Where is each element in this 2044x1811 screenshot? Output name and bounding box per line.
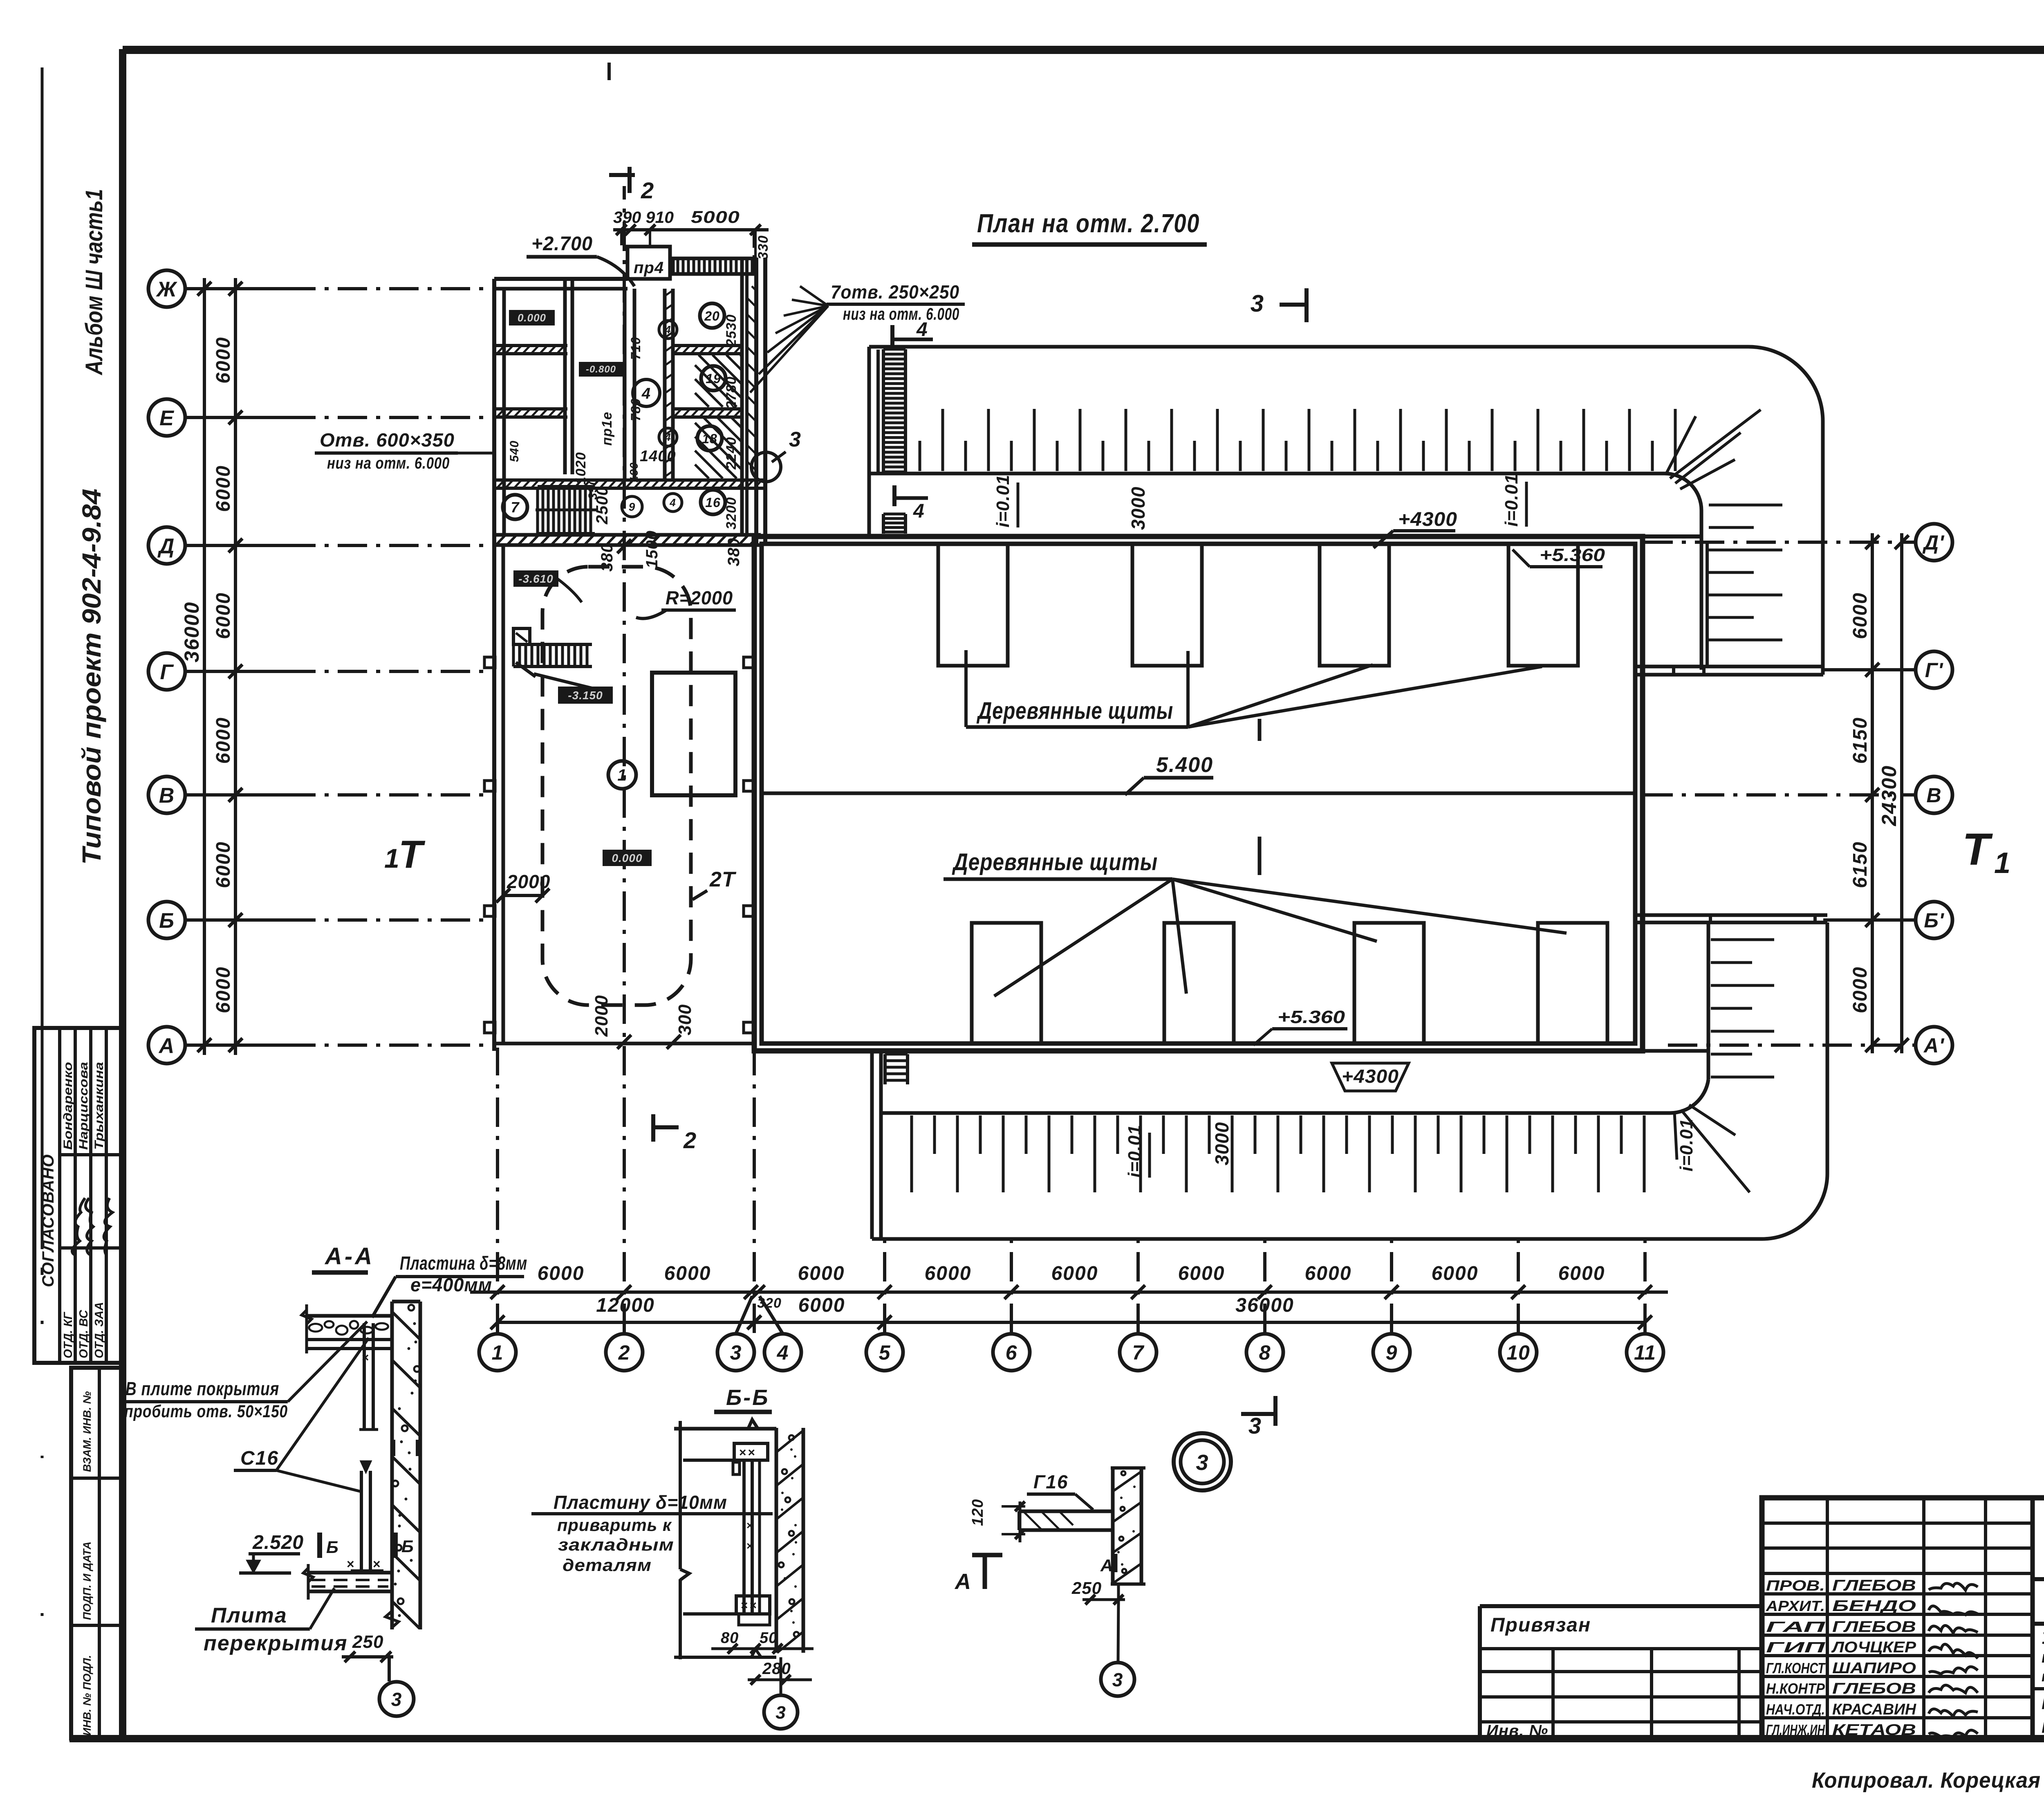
- svg-text:3: 3: [789, 428, 801, 451]
- svg-text:+5.360: +5.360: [1277, 1007, 1345, 1027]
- svg-text:ОТД. КГ: ОТД. КГ: [62, 1312, 75, 1358]
- svg-text:4: 4: [664, 323, 671, 336]
- svg-text:780: 780: [628, 398, 643, 421]
- svg-text:Ж: Ж: [155, 278, 177, 301]
- svg-text:Б-Б: Б-Б: [726, 1385, 769, 1410]
- svg-text:300: 300: [675, 1004, 695, 1035]
- svg-text:6000: 6000: [213, 841, 234, 888]
- svg-text:закладным: закладным: [558, 1535, 674, 1554]
- svg-text:А: А: [158, 1034, 175, 1058]
- svg-text:План на отм. 2.700: План на отм. 2.700: [2042, 1693, 2044, 1713]
- svg-text:План на отм. 2.700: План на отм. 2.700: [977, 209, 1200, 238]
- svg-text:Деревянные щиты: Деревянные щиты: [976, 698, 1173, 724]
- svg-text:ГЛ.КОНСТ: ГЛ.КОНСТ: [1766, 1660, 1826, 1676]
- svg-text:6000: 6000: [664, 1263, 711, 1284]
- svg-text:СОГЛАСОВАНО: СОГЛАСОВАНО: [39, 1154, 57, 1287]
- svg-text:Плита: Плита: [211, 1604, 287, 1627]
- svg-text:×: ×: [347, 1557, 355, 1571]
- svg-text:540: 540: [508, 440, 521, 462]
- svg-text:6150: 6150: [1849, 717, 1871, 764]
- svg-text:Б: Б: [159, 909, 175, 933]
- svg-text:Нарциссова: Нарциссова: [77, 1062, 90, 1150]
- svg-text:4: 4: [669, 496, 676, 509]
- svg-text:i=0.01: i=0.01: [1502, 474, 1522, 527]
- svg-text:6000: 6000: [1305, 1263, 1352, 1284]
- svg-text:ШАПИРО: ШАПИРО: [1832, 1660, 1916, 1677]
- svg-text:7отв. 250×250: 7отв. 250×250: [831, 281, 959, 303]
- svg-text:ГИП: ГИП: [1766, 1639, 1826, 1656]
- svg-text:7: 7: [511, 499, 520, 516]
- svg-text:А': А': [1923, 1034, 1945, 1057]
- svg-text:низ на отм. 6.000: низ на отм. 6.000: [327, 454, 450, 472]
- svg-text:Д: Д: [157, 534, 175, 558]
- svg-text:1400: 1400: [640, 448, 676, 465]
- svg-text:×: ×: [746, 1539, 753, 1552]
- svg-text:на каркасно-засыпных фильтрах: на каркасно-засыпных фильтрах: [2042, 1648, 2044, 1666]
- svg-text:3000: 3000: [1127, 487, 1149, 530]
- svg-text:250: 250: [1071, 1578, 1102, 1598]
- svg-text:3: 3: [391, 1689, 402, 1710]
- svg-text:Типовой проект 902-4-9.84: Типовой проект 902-4-9.84: [77, 489, 106, 865]
- svg-text:Н.КОНТР: Н.КОНТР: [1766, 1680, 1825, 1697]
- svg-text:План на отм. -4.680 и -3.150: План на отм. -4.680 и -3.150: [2042, 1717, 2044, 1737]
- svg-text:0.000: 0.000: [518, 312, 546, 324]
- svg-text:Г': Г': [1925, 659, 1944, 682]
- svg-text:36000: 36000: [180, 601, 203, 662]
- svg-text:6000: 6000: [213, 717, 234, 764]
- svg-text:ГЛЕБОВ: ГЛЕБОВ: [1832, 1577, 1916, 1594]
- svg-text:перекрытия: перекрытия: [204, 1631, 348, 1655]
- svg-text:280: 280: [762, 1660, 791, 1678]
- svg-text:2530: 2530: [724, 314, 739, 347]
- svg-text:i=0.01: i=0.01: [1125, 1124, 1145, 1178]
- svg-text:КЕТАОВ: КЕТАОВ: [1832, 1721, 1916, 1739]
- svg-text:××: ××: [739, 1446, 757, 1459]
- svg-text:20: 20: [704, 309, 720, 323]
- svg-text:2: 2: [618, 1341, 630, 1364]
- svg-text:16: 16: [705, 495, 721, 510]
- svg-text:i=0.01: i=0.01: [993, 474, 1013, 527]
- svg-text:7: 7: [1132, 1341, 1145, 1364]
- svg-text:6000: 6000: [1558, 1263, 1605, 1284]
- svg-text:6: 6: [1006, 1341, 1018, 1364]
- svg-text:Д': Д': [1922, 531, 1945, 554]
- svg-text:Е: Е: [159, 406, 174, 430]
- svg-text:Трыханкина: Трыханкина: [92, 1062, 106, 1150]
- svg-text:120: 120: [969, 1499, 986, 1526]
- svg-text:350: 350: [586, 478, 600, 500]
- svg-text:6000: 6000: [1051, 1263, 1098, 1284]
- svg-text:××: ××: [741, 1599, 758, 1612]
- svg-text:i=0.01: i=0.01: [1676, 1118, 1697, 1171]
- svg-text:В: В: [1926, 784, 1941, 807]
- svg-text:5: 5: [879, 1341, 891, 1364]
- svg-text:11: 11: [1634, 1341, 1656, 1364]
- svg-text:6000: 6000: [925, 1263, 972, 1284]
- svg-text:6000: 6000: [798, 1295, 845, 1316]
- svg-text:А: А: [954, 1569, 971, 1594]
- svg-text:1: 1: [384, 843, 400, 873]
- svg-text:ГЛЕБОВ: ГЛЕБОВ: [1832, 1680, 1916, 1697]
- svg-text:Установка доочистки сточных во: Установка доочистки сточных вод: [2042, 1629, 2044, 1647]
- svg-text:6000: 6000: [1849, 592, 1871, 639]
- svg-text:6000: 6000: [1432, 1263, 1479, 1284]
- svg-text:НАЧ.ОТД.: НАЧ.ОТД.: [1766, 1701, 1825, 1718]
- svg-text:Отв. 600×350: Отв. 600×350: [320, 429, 455, 451]
- svg-text:+5.360: +5.360: [1540, 545, 1605, 565]
- svg-text:3: 3: [1248, 1413, 1262, 1438]
- svg-text:250: 250: [352, 1632, 383, 1652]
- svg-text:низ на отм. 6.000: низ на отм. 6.000: [843, 304, 959, 323]
- svg-text:×: ×: [373, 1557, 381, 1571]
- svg-text:6000: 6000: [213, 966, 234, 1013]
- svg-text:9: 9: [1386, 1341, 1398, 1364]
- svg-text:6000: 6000: [1178, 1263, 1225, 1284]
- svg-text:пробить отв. 50×150: пробить отв. 50×150: [124, 1402, 288, 1421]
- svg-text:ГЛ.ИНЖ.ИН: ГЛ.ИНЖ.ИН: [1766, 1721, 1825, 1738]
- svg-text:Пластина δ=8мм: Пластина δ=8мм: [400, 1252, 527, 1274]
- svg-text:×: ×: [362, 1351, 370, 1364]
- svg-text:-0.800: -0.800: [586, 364, 616, 375]
- svg-text:3: 3: [775, 1703, 786, 1723]
- svg-text:В плите покрытия: В плите покрытия: [126, 1378, 279, 1399]
- svg-text:4: 4: [913, 500, 925, 522]
- svg-text:ОТД. ВС: ОТД. ВС: [77, 1309, 90, 1358]
- svg-text:380: 380: [598, 543, 616, 572]
- svg-text:Пластину δ=10мм: Пластину δ=10мм: [554, 1492, 727, 1513]
- svg-text:5000: 5000: [691, 207, 740, 227]
- svg-text:5.400: 5.400: [1156, 753, 1213, 777]
- svg-text:6150: 6150: [1849, 841, 1871, 888]
- svg-text:С16: С16: [240, 1447, 279, 1469]
- svg-text:1: 1: [617, 766, 627, 784]
- svg-text:Г: Г: [160, 660, 174, 684]
- svg-text:2: 2: [683, 1127, 697, 1153]
- svg-text:ОТД. ЗАА: ОТД. ЗАА: [93, 1302, 106, 1358]
- svg-text:ЛОЧЦКЕР: ЛОЧЦКЕР: [1831, 1639, 1916, 1656]
- svg-text:приварить к: приварить к: [557, 1515, 672, 1535]
- svg-text:R=2000: R=2000: [666, 587, 733, 608]
- svg-text:ПОДП. И ДАТА: ПОДП. И ДАТА: [81, 1542, 93, 1620]
- svg-text:9: 9: [629, 500, 636, 513]
- svg-text:В: В: [159, 784, 175, 808]
- svg-text:1: 1: [1994, 847, 2011, 880]
- svg-text:19: 19: [706, 371, 721, 386]
- svg-text:330: 330: [755, 235, 771, 260]
- svg-text:4: 4: [664, 431, 671, 443]
- svg-text:Инв. №: Инв. №: [1486, 1722, 1548, 1740]
- svg-text:2000: 2000: [592, 995, 612, 1037]
- svg-text:3: 3: [730, 1341, 742, 1364]
- svg-text:Бондаренко: Бондаренко: [61, 1062, 75, 1150]
- svg-text:Копировал. Корецкая: Копировал. Корецкая: [1812, 1768, 2041, 1793]
- svg-text:Привязан: Привязан: [1490, 1614, 1591, 1636]
- svg-text:3: 3: [1112, 1669, 1123, 1690]
- svg-text:390 910: 390 910: [613, 209, 674, 227]
- svg-text:ВЗАМ. ИНВ. №: ВЗАМ. ИНВ. №: [81, 1391, 93, 1472]
- svg-text:2Т: 2Т: [709, 868, 737, 891]
- svg-text:производительностью 70тыс.м³/с: производительностью 70тыс.м³/сутки: [2042, 1668, 2044, 1685]
- svg-text:3: 3: [1251, 290, 1264, 317]
- svg-text:пр1е: пр1е: [599, 412, 615, 446]
- svg-text:8: 8: [1259, 1341, 1271, 1364]
- svg-text:ПРОВ.: ПРОВ.: [1766, 1577, 1825, 1594]
- svg-text:6000: 6000: [213, 465, 234, 512]
- svg-text:3: 3: [1196, 1450, 1208, 1475]
- svg-text:-3.150: -3.150: [568, 689, 603, 702]
- svg-text:×: ×: [746, 1519, 753, 1532]
- svg-text:2: 2: [641, 177, 654, 203]
- svg-text:4: 4: [777, 1341, 789, 1364]
- svg-text:6000: 6000: [798, 1263, 845, 1284]
- svg-text:10: 10: [1506, 1341, 1530, 1364]
- svg-text:18: 18: [702, 431, 717, 446]
- svg-text:6000: 6000: [1849, 966, 1871, 1013]
- svg-text:БЕНДО: БЕНДО: [1832, 1598, 1916, 1615]
- svg-text:Б': Б': [1924, 909, 1944, 932]
- svg-text:+4300: +4300: [1398, 509, 1457, 530]
- svg-text:320: 320: [757, 1295, 782, 1311]
- svg-text:6000: 6000: [213, 337, 234, 384]
- svg-text:ГЛЕБОВ: ГЛЕБОВ: [1832, 1618, 1916, 1636]
- svg-text:Т: Т: [1962, 824, 1993, 875]
- svg-text:Т: Т: [399, 833, 426, 876]
- svg-text:Б: Б: [401, 1537, 414, 1556]
- svg-text:Деревянные щиты: Деревянные щиты: [952, 849, 1158, 875]
- svg-text:АРХИТ.: АРХИТ.: [1766, 1598, 1825, 1614]
- svg-text:Г16: Г16: [1033, 1471, 1068, 1492]
- svg-text:50: 50: [760, 1629, 778, 1647]
- svg-text:2780: 2780: [724, 376, 739, 409]
- svg-text:А: А: [1100, 1556, 1113, 1575]
- svg-text:деталям: деталям: [563, 1555, 652, 1575]
- svg-text:3200: 3200: [724, 497, 739, 530]
- svg-text:2.520: 2.520: [252, 1532, 304, 1553]
- svg-text:2000: 2000: [507, 871, 550, 892]
- svg-text:-3.610: -3.610: [518, 572, 553, 585]
- svg-text:Б: Б: [326, 1537, 339, 1557]
- svg-text:190: 190: [628, 462, 640, 482]
- svg-text:А-А: А-А: [324, 1243, 374, 1270]
- svg-text:ГАП: ГАП: [1766, 1618, 1826, 1635]
- svg-text:КРАСАВИН: КРАСАВИН: [1832, 1701, 1917, 1718]
- svg-text:6000: 6000: [213, 592, 234, 639]
- svg-text:пр4: пр4: [634, 259, 664, 277]
- svg-text:ИНВ. № ПОДЛ.: ИНВ. № ПОДЛ.: [81, 1655, 93, 1736]
- svg-text:6000: 6000: [538, 1263, 585, 1284]
- svg-text:710: 710: [628, 337, 643, 360]
- svg-text:2240: 2240: [724, 437, 739, 470]
- svg-text:1: 1: [492, 1341, 504, 1364]
- svg-text:+2.700: +2.700: [531, 233, 593, 255]
- svg-text:Альбом Ш часть1: Альбом Ш часть1: [81, 189, 108, 376]
- svg-text:3000: 3000: [1211, 1122, 1233, 1165]
- svg-text:0.000: 0.000: [612, 852, 642, 864]
- svg-text:+4300: +4300: [1342, 1066, 1399, 1087]
